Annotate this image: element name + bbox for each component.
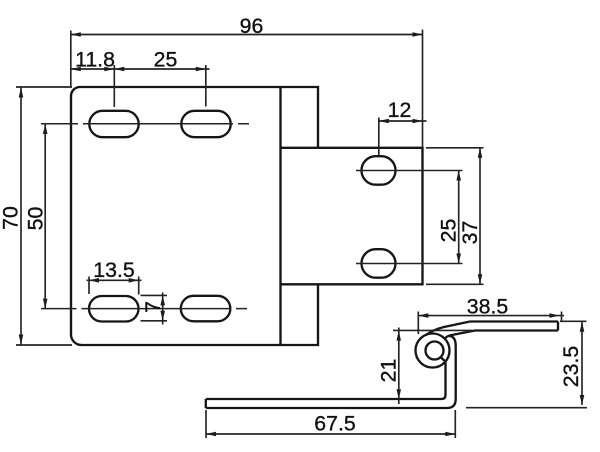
arrows dim 67.5	[206, 432, 216, 437]
dim 96 left extension / plate edge extension	[70, 31, 72, 88]
slot S1 top-left	[89, 111, 138, 137]
arrows dim 21	[397, 331, 402, 341]
side view: curl outer circle	[416, 334, 450, 368]
arrows dim 38.5	[418, 313, 428, 318]
dim 67.5 right extension	[454, 410, 456, 438]
side view: curl inner circle	[426, 342, 444, 360]
svg-text:7: 7	[141, 301, 165, 313]
dim 7 line	[162, 293, 164, 325]
side view: curl tail edge	[441, 357, 446, 362]
svg-text:21: 21	[377, 359, 401, 383]
dim 96 line	[71, 34, 423, 36]
centerline top slot row	[41, 123, 249, 125]
dim 7 top extension	[141, 294, 168, 296]
arrows dim 96	[71, 32, 81, 37]
dim 70 bottom extension	[16, 344, 72, 346]
slot S4 bottom-right	[181, 296, 231, 322]
svg-text:13.5: 13.5	[93, 258, 134, 282]
dim 23.5 line	[581, 322, 583, 405]
arrows dim 23.5	[580, 322, 585, 332]
dim 37 bottom extension	[426, 283, 484, 285]
dim 7 bottom extension	[141, 320, 168, 322]
slot S6 flange lower	[362, 249, 396, 278]
dim 50 line	[44, 124, 46, 309]
svg-text:38.5: 38.5	[467, 295, 508, 319]
slot S5 flange upper	[362, 156, 396, 185]
slot S3 bottom-left	[89, 296, 139, 322]
svg-text:11.8: 11.8	[75, 48, 115, 72]
arrows dim 11.8	[71, 67, 81, 72]
dim 13.5 right extension	[138, 277, 140, 295]
dim 37 line	[479, 148, 481, 284]
dim 12 line	[379, 120, 427, 122]
dim 21 top extension	[393, 329, 472, 331]
svg-text:12: 12	[388, 98, 412, 122]
dim 12 left extension	[378, 118, 380, 156]
dim 70 top extension	[16, 86, 72, 88]
slot S2 top-right	[181, 111, 230, 137]
dim 13.5 line	[87, 279, 142, 281]
arrows dim 12	[379, 119, 389, 124]
arrows dim 13.5	[89, 278, 99, 283]
fold line of main plate	[279, 87, 281, 345]
dim 23.5 bottom extension	[466, 407, 587, 409]
right flange rectangle	[281, 148, 423, 284]
side view: top leaf upper surface	[426, 322, 559, 336]
dim 67.5 line	[206, 433, 455, 435]
dim 21 line	[398, 328, 400, 405]
centerline flange upper slot	[356, 170, 463, 172]
extension at slot S1 center	[113, 65, 115, 107]
dim 38.5 line	[418, 315, 564, 317]
side view: top leaf lower surface	[444, 331, 558, 340]
dim 13.5 left extension	[88, 277, 90, 295]
extension at slot S2 center	[205, 65, 207, 107]
dim 37 top extension	[426, 147, 484, 149]
centerline bottom slot row	[41, 308, 247, 310]
side view: bottom leaf bottom surface and leg right side	[206, 336, 456, 408]
dim 96 right extension	[422, 30, 424, 148]
side view: top leaf end cap	[557, 322, 559, 331]
dim 70 line	[20, 87, 22, 345]
svg-text:96: 96	[240, 14, 264, 38]
dim 25 right line	[458, 171, 460, 264]
arrows dim 25 right	[456, 171, 461, 181]
arrows dim 37	[478, 148, 483, 158]
centerline flange lower slot	[356, 263, 463, 265]
svg-text:50: 50	[24, 207, 48, 231]
dim 11.8 and 25 line	[71, 68, 210, 70]
dim 67.5 left extension	[205, 410, 207, 438]
dim 38.5 left extension	[417, 312, 419, 335]
dim 23.5 top extension	[560, 320, 587, 322]
arrows dim 70	[19, 88, 24, 98]
svg-text:37: 37	[458, 221, 482, 245]
svg-text:23.5: 23.5	[559, 346, 583, 387]
arrows dim 25 top	[114, 67, 124, 72]
side view: bottom leaf top surface and leg left side	[206, 362, 446, 399]
svg-text:25: 25	[154, 48, 178, 72]
main plate outline (front view)	[71, 87, 318, 345]
side view: bottom leaf left end cap	[205, 399, 207, 408]
arrows dim 7	[160, 295, 165, 305]
dim 38.5 right extension	[561, 312, 563, 322]
svg-text:67.5: 67.5	[314, 412, 355, 436]
svg-text:25: 25	[437, 219, 461, 243]
svg-text:70: 70	[0, 206, 22, 230]
arrows dim 50	[43, 124, 48, 134]
